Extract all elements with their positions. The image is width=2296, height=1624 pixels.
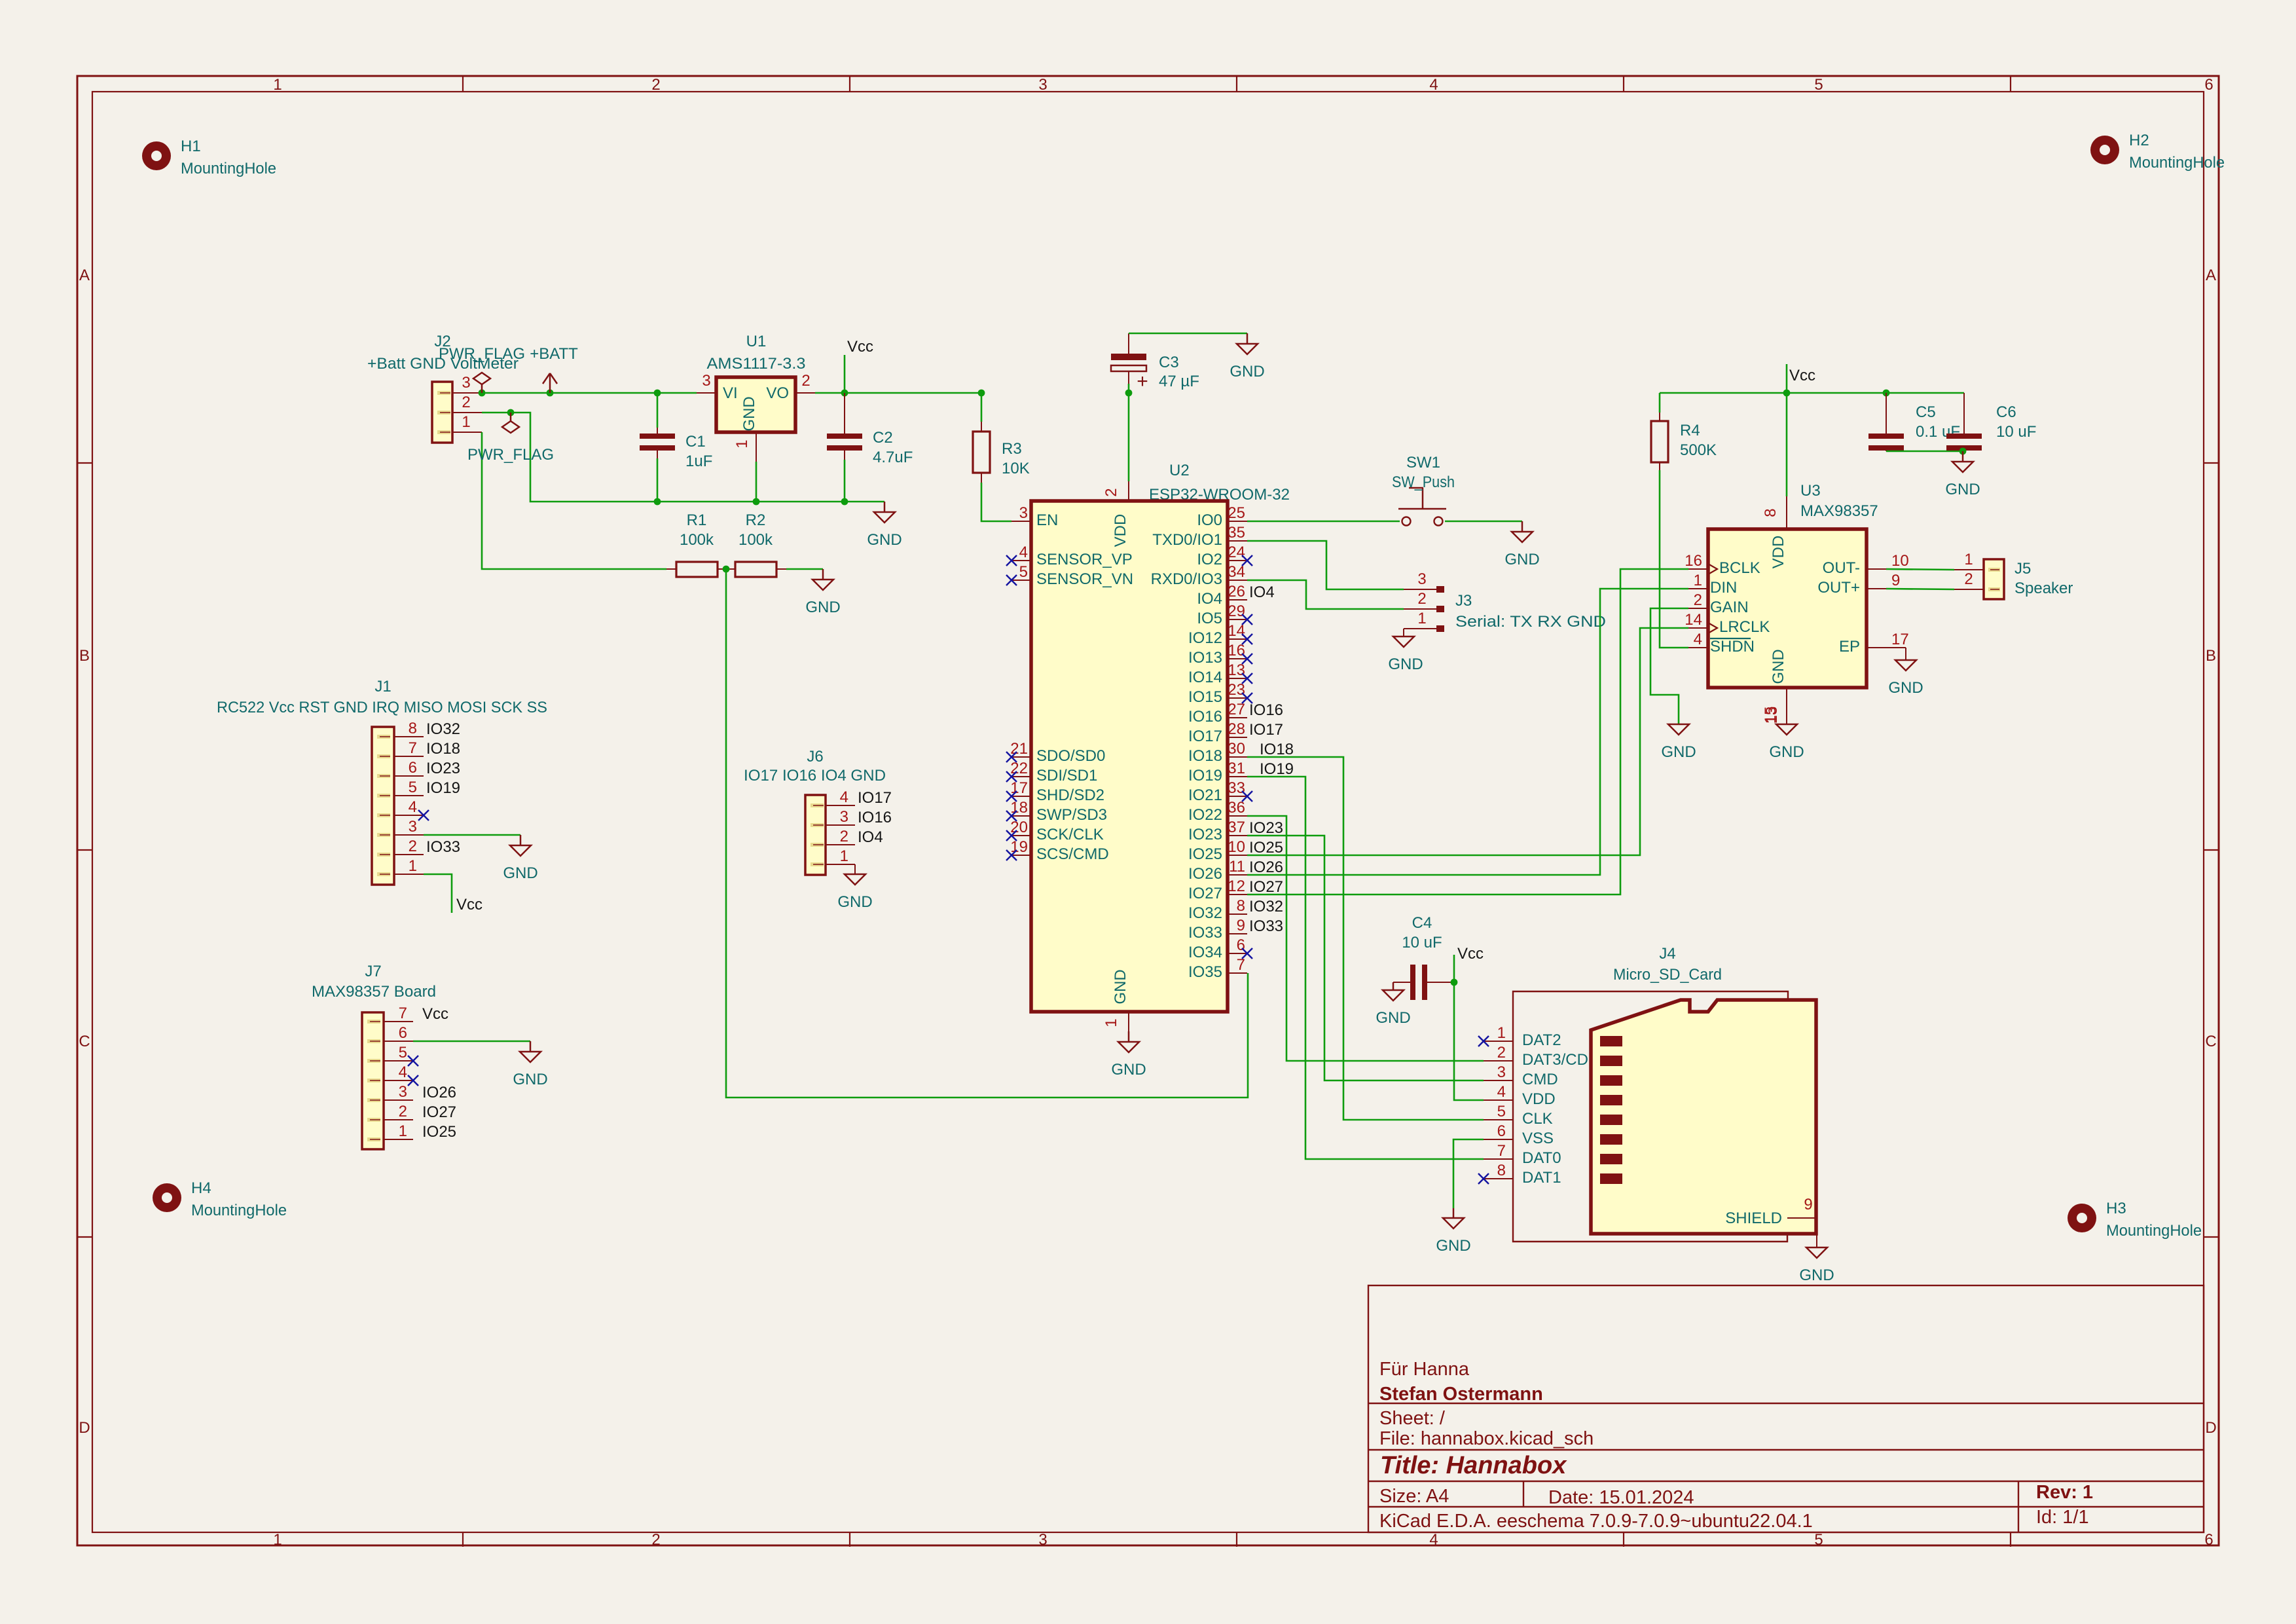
svg-text:3: 3	[1038, 1531, 1047, 1549]
svg-text:R3: R3	[1002, 440, 1022, 458]
svg-text:4: 4	[1694, 631, 1702, 648]
svg-text:500K: 500K	[1680, 441, 1717, 459]
svg-text:BCLK: BCLK	[1719, 559, 1760, 577]
svg-text:TXD0/IO1: TXD0/IO1	[1152, 531, 1222, 549]
svg-text:SHDN: SHDN	[1710, 638, 1755, 655]
svg-text:GND: GND	[1799, 1266, 1834, 1284]
svg-text:26: 26	[1228, 583, 1245, 600]
svg-text:LRCLK: LRCLK	[1719, 618, 1770, 636]
svg-text:5: 5	[399, 1044, 407, 1061]
svg-text:GND: GND	[513, 1071, 547, 1088]
svg-text:CLK: CLK	[1522, 1110, 1553, 1128]
svg-text:SHD/SD2: SHD/SD2	[1036, 786, 1104, 804]
svg-text:+BATT: +BATT	[530, 345, 578, 363]
svg-text:2: 2	[651, 76, 660, 94]
svg-text:1: 1	[273, 76, 282, 94]
svg-text:6: 6	[2204, 76, 2213, 94]
svg-text:4: 4	[1429, 1531, 1438, 1549]
svg-text:C: C	[2205, 1033, 2216, 1050]
svg-text:IO18: IO18	[426, 740, 460, 758]
svg-text:EN: EN	[1036, 511, 1058, 529]
svg-text:OUT-: OUT-	[1823, 559, 1860, 577]
svg-text:35: 35	[1228, 524, 1245, 542]
svg-text:A: A	[2206, 267, 2216, 284]
svg-text:B: B	[79, 647, 90, 665]
svg-text:31: 31	[1228, 760, 1245, 777]
svg-text:GND: GND	[867, 531, 902, 549]
svg-text:Date: 15.01.2024: Date: 15.01.2024	[1548, 1487, 1694, 1508]
svg-text:CMD: CMD	[1522, 1071, 1558, 1088]
svg-text:IO19: IO19	[1188, 767, 1222, 784]
svg-text:1: 1	[1497, 1024, 1506, 1042]
svg-text:11: 11	[1229, 858, 1245, 876]
svg-text:DAT3/CD: DAT3/CD	[1522, 1051, 1588, 1069]
svg-text:7: 7	[1497, 1142, 1506, 1160]
svg-text:DAT0: DAT0	[1522, 1149, 1561, 1167]
svg-text:PWR_FLAG: PWR_FLAG	[467, 446, 554, 464]
svg-text:VO: VO	[766, 384, 789, 402]
svg-text:IO0: IO0	[1197, 511, 1222, 529]
svg-text:VI: VI	[723, 384, 738, 402]
svg-text:SCS/CMD: SCS/CMD	[1036, 845, 1109, 863]
svg-text:Title: Hannabox: Title: Hannabox	[1380, 1452, 1567, 1479]
svg-text:GND: GND	[1770, 649, 1787, 684]
svg-text:Vcc: Vcc	[456, 896, 483, 913]
svg-text:J1: J1	[374, 678, 391, 695]
svg-text:9: 9	[1237, 917, 1245, 934]
svg-text:2: 2	[840, 828, 848, 845]
svg-text:24: 24	[1228, 544, 1245, 561]
svg-text:4: 4	[399, 1063, 407, 1081]
svg-text:1: 1	[1964, 551, 1973, 568]
svg-text:GND: GND	[837, 893, 872, 911]
svg-text:MountingHole: MountingHole	[2129, 154, 2225, 172]
svg-text:EP: EP	[1839, 638, 1860, 655]
svg-text:IO27: IO27	[422, 1103, 456, 1121]
svg-text:3: 3	[1019, 504, 1028, 522]
svg-text:IO26: IO26	[1249, 858, 1283, 876]
svg-text:GND: GND	[1436, 1237, 1470, 1255]
svg-text:IO12: IO12	[1188, 629, 1222, 647]
svg-text:U2: U2	[1169, 462, 1190, 479]
svg-text:GND: GND	[1661, 743, 1696, 761]
svg-text:AMS1117-3.3: AMS1117-3.3	[707, 355, 806, 373]
svg-text:1uF: 1uF	[685, 452, 712, 470]
svg-text:6: 6	[399, 1024, 407, 1042]
svg-text:MountingHole: MountingHole	[2106, 1222, 2202, 1240]
svg-text:9: 9	[1804, 1196, 1812, 1213]
svg-text:3: 3	[409, 818, 417, 836]
svg-text:SW_Push: SW_Push	[1392, 473, 1455, 491]
svg-text:GND: GND	[1376, 1009, 1410, 1027]
svg-text:GND: GND	[1945, 481, 1980, 498]
svg-text:IO17 IO16 IO4 GND: IO17 IO16 IO4 GND	[744, 767, 886, 784]
svg-text:IO13: IO13	[1188, 649, 1222, 667]
svg-text:5: 5	[1497, 1103, 1506, 1120]
svg-text:U1: U1	[746, 333, 767, 350]
svg-text:Id: 1/1: Id: 1/1	[2036, 1507, 2089, 1528]
svg-text:3: 3	[462, 374, 470, 392]
svg-text:9: 9	[1891, 572, 1900, 589]
svg-text:C: C	[79, 1033, 90, 1050]
svg-text:B: B	[2206, 647, 2216, 665]
svg-text:1: 1	[1694, 572, 1702, 589]
svg-text:IO21: IO21	[1188, 786, 1222, 804]
svg-text:J3: J3	[1455, 592, 1472, 610]
svg-text:IO32: IO32	[1249, 898, 1283, 915]
svg-text:MountingHole: MountingHole	[181, 160, 276, 177]
svg-text:IO15: IO15	[1188, 688, 1222, 706]
svg-text:GND: GND	[1769, 743, 1804, 761]
svg-text:MountingHole: MountingHole	[191, 1202, 287, 1219]
svg-text:IO33: IO33	[426, 838, 460, 856]
svg-text:GND: GND	[1388, 655, 1423, 673]
svg-text:IO23: IO23	[1249, 819, 1283, 837]
svg-text:H4: H4	[191, 1179, 211, 1197]
svg-text:37: 37	[1228, 819, 1245, 836]
svg-text:13: 13	[1763, 707, 1781, 724]
svg-text:4: 4	[1429, 76, 1438, 94]
svg-text:Vcc: Vcc	[1789, 367, 1815, 384]
svg-text:IO18: IO18	[1188, 747, 1222, 765]
svg-text:IO22: IO22	[1188, 806, 1222, 824]
svg-text:Stefan Ostermann: Stefan Ostermann	[1379, 1384, 1543, 1405]
svg-text:14: 14	[1685, 611, 1702, 629]
svg-text:1: 1	[1102, 1018, 1120, 1027]
svg-text:C5: C5	[1916, 403, 1936, 421]
svg-text:GND: GND	[1111, 1061, 1146, 1079]
svg-text:6: 6	[2204, 1531, 2213, 1549]
svg-text:DAT1: DAT1	[1522, 1169, 1561, 1187]
svg-text:MAX98357 Board: MAX98357 Board	[312, 983, 436, 1001]
svg-text:29: 29	[1228, 602, 1245, 620]
svg-text:SW1: SW1	[1406, 454, 1440, 471]
svg-text:GND: GND	[503, 864, 538, 882]
svg-text:GAIN: GAIN	[1710, 599, 1749, 616]
svg-text:J7: J7	[365, 963, 381, 980]
svg-text:MAX98357: MAX98357	[1800, 502, 1878, 520]
svg-text:Vcc: Vcc	[847, 338, 873, 356]
svg-text:IO32: IO32	[426, 720, 460, 738]
svg-text:OUT+: OUT+	[1817, 579, 1860, 597]
svg-text:2: 2	[462, 394, 470, 411]
svg-text:IO23: IO23	[426, 760, 460, 777]
svg-text:D: D	[2205, 1419, 2216, 1437]
svg-text:RC522 Vcc RST GND IRQ MISO MOS: RC522 Vcc RST GND IRQ MISO MOSI SCK SS	[217, 699, 547, 716]
svg-text:IO17: IO17	[1188, 728, 1222, 745]
svg-text:IO2: IO2	[1197, 551, 1222, 568]
svg-text:1: 1	[462, 413, 470, 431]
svg-text:A: A	[79, 267, 90, 284]
svg-text:J5: J5	[2014, 560, 2031, 578]
svg-text:U3: U3	[1800, 482, 1821, 500]
svg-text:SWP/SD3: SWP/SD3	[1036, 806, 1107, 824]
svg-text:IO23: IO23	[1188, 826, 1222, 843]
svg-text:IO19: IO19	[426, 779, 460, 797]
svg-text:47 µF: 47 µF	[1159, 373, 1199, 390]
svg-text:+: +	[1137, 371, 1148, 392]
svg-text:4: 4	[1019, 544, 1028, 561]
svg-text:1: 1	[273, 1531, 282, 1549]
svg-text:J4: J4	[1659, 945, 1675, 963]
svg-text:16: 16	[1685, 552, 1702, 570]
svg-text:5: 5	[409, 779, 417, 796]
svg-text:GND: GND	[1504, 551, 1539, 568]
svg-text:C1: C1	[685, 433, 706, 451]
svg-text:IO25: IO25	[1188, 845, 1222, 863]
svg-text:SCK/CLK: SCK/CLK	[1036, 826, 1104, 843]
svg-text:IO17: IO17	[1249, 721, 1283, 739]
svg-text:IO14: IO14	[1188, 669, 1222, 686]
svg-text:10: 10	[1228, 838, 1245, 856]
svg-text:IO4: IO4	[858, 828, 883, 846]
svg-text:8: 8	[409, 720, 417, 737]
svg-text:IO33: IO33	[1249, 917, 1283, 935]
svg-text:12: 12	[1228, 877, 1245, 895]
svg-text:7: 7	[1237, 956, 1245, 974]
svg-text:2: 2	[651, 1531, 660, 1549]
svg-text:4: 4	[409, 798, 417, 816]
svg-text:2: 2	[1102, 488, 1120, 496]
svg-text:IO16: IO16	[1249, 701, 1283, 719]
svg-text:GND: GND	[1888, 679, 1923, 697]
svg-text:SDI/SD1: SDI/SD1	[1036, 767, 1097, 784]
svg-text:10 uF: 10 uF	[1402, 934, 1442, 951]
svg-text:Sheet: /: Sheet: /	[1379, 1408, 1446, 1429]
svg-text:IO35: IO35	[1188, 963, 1222, 981]
svg-text:IO25: IO25	[1249, 839, 1283, 857]
svg-text:25: 25	[1228, 504, 1245, 522]
svg-text:5: 5	[1814, 1531, 1823, 1549]
svg-text:IO34: IO34	[1188, 944, 1222, 961]
svg-text:10: 10	[1891, 552, 1909, 570]
svg-text:File: hannabox.kicad_sch: File: hannabox.kicad_sch	[1379, 1428, 1594, 1449]
svg-text:IO26: IO26	[422, 1084, 456, 1101]
svg-text:Für Hanna: Für Hanna	[1379, 1359, 1470, 1380]
svg-text:1: 1	[733, 439, 751, 448]
svg-text:IO17: IO17	[858, 789, 892, 807]
svg-text:8: 8	[1497, 1162, 1506, 1179]
svg-text:R1: R1	[687, 511, 707, 529]
svg-text:2: 2	[1694, 591, 1702, 609]
svg-text:IO32: IO32	[1188, 904, 1222, 922]
svg-text:5: 5	[1814, 76, 1823, 94]
svg-text:GND: GND	[1230, 363, 1264, 380]
svg-text:4: 4	[840, 788, 848, 806]
svg-text:IO16: IO16	[858, 809, 892, 826]
svg-text:6: 6	[409, 759, 417, 777]
svg-text:VDD: VDD	[1770, 536, 1787, 569]
svg-text:DIN: DIN	[1710, 579, 1737, 597]
svg-text:Size: A4: Size: A4	[1379, 1486, 1449, 1507]
svg-text:4: 4	[1497, 1083, 1506, 1101]
svg-text:IO18: IO18	[1260, 741, 1294, 758]
svg-text:3: 3	[399, 1083, 407, 1101]
svg-text:H3: H3	[2106, 1200, 2126, 1217]
svg-text:1: 1	[409, 857, 417, 875]
svg-text:3: 3	[1417, 570, 1426, 588]
svg-text:IO27: IO27	[1188, 885, 1222, 902]
svg-text:2: 2	[409, 838, 417, 855]
svg-text:Speaker: Speaker	[2014, 580, 2073, 597]
svg-text:10 uF: 10 uF	[1996, 423, 2036, 441]
svg-text:4.7uF: 4.7uF	[873, 449, 913, 466]
svg-text:Rev: 1: Rev: 1	[2036, 1482, 2093, 1503]
svg-text:RXD0/IO3: RXD0/IO3	[1151, 570, 1222, 588]
svg-text:7: 7	[409, 739, 417, 757]
svg-text:IO25: IO25	[422, 1123, 456, 1141]
svg-text:Serial: TX RX GND: Serial: TX RX GND	[1455, 613, 1606, 631]
svg-text:7: 7	[399, 1005, 407, 1022]
svg-text:Vcc: Vcc	[422, 1005, 448, 1023]
svg-text:2: 2	[399, 1103, 407, 1120]
svg-text:3: 3	[1497, 1063, 1506, 1081]
svg-text:6: 6	[1497, 1122, 1506, 1140]
svg-text:3: 3	[1038, 76, 1047, 94]
svg-text:D: D	[79, 1419, 90, 1437]
svg-text:DAT2: DAT2	[1522, 1031, 1561, 1049]
svg-text:R4: R4	[1680, 422, 1700, 439]
svg-text:2: 2	[1964, 570, 1973, 588]
svg-text:SHIELD: SHIELD	[1725, 1209, 1782, 1227]
svg-text:1: 1	[1417, 610, 1426, 627]
svg-text:28: 28	[1228, 720, 1245, 738]
svg-text:KiCad E.D.A. eeschema 7.0.9-7: KiCad E.D.A. eeschema 7.0.9-7.0.9~ubuntu…	[1379, 1511, 1813, 1532]
svg-text:IO27: IO27	[1249, 878, 1283, 896]
svg-text:IO19: IO19	[1260, 760, 1294, 778]
svg-text:R2: R2	[746, 511, 766, 529]
svg-text:17: 17	[1891, 631, 1909, 648]
svg-text:C2: C2	[873, 429, 893, 447]
svg-text:SENSOR_VN: SENSOR_VN	[1036, 570, 1133, 588]
svg-text:GND: GND	[1112, 969, 1129, 1004]
svg-text:5: 5	[1019, 563, 1028, 581]
svg-text:IO4: IO4	[1249, 583, 1275, 601]
svg-text:J6: J6	[807, 748, 823, 766]
svg-text:GND: GND	[740, 396, 758, 431]
svg-text:6: 6	[1237, 936, 1245, 954]
svg-text:Vcc: Vcc	[1457, 945, 1484, 963]
svg-text:1: 1	[399, 1122, 407, 1140]
svg-text:2: 2	[1497, 1044, 1506, 1061]
svg-text:10K: 10K	[1002, 460, 1030, 477]
svg-text:8: 8	[1237, 897, 1245, 915]
svg-text:2: 2	[1417, 590, 1426, 608]
svg-text:IO5: IO5	[1197, 610, 1222, 627]
svg-text:IO4: IO4	[1197, 590, 1222, 608]
svg-text:H2: H2	[2129, 132, 2149, 149]
svg-text:VDD: VDD	[1112, 514, 1129, 547]
svg-text:VDD: VDD	[1522, 1090, 1556, 1108]
svg-text:100k: 100k	[738, 531, 773, 549]
svg-text:SDO/SD0: SDO/SD0	[1036, 747, 1105, 765]
svg-text:C6: C6	[1996, 403, 2016, 421]
svg-text:H1: H1	[181, 138, 201, 155]
svg-text:SENSOR_VP: SENSOR_VP	[1036, 551, 1133, 568]
svg-text:PWR_FLAG: PWR_FLAG	[439, 345, 525, 363]
svg-text:GND: GND	[805, 599, 840, 616]
svg-text:1: 1	[840, 847, 848, 865]
svg-text:C3: C3	[1159, 354, 1179, 371]
svg-text:33: 33	[1228, 779, 1245, 797]
svg-text:2: 2	[801, 372, 810, 390]
svg-text:30: 30	[1228, 740, 1245, 758]
svg-text:8: 8	[1762, 508, 1779, 517]
svg-text:3: 3	[702, 372, 710, 390]
svg-text:VSS: VSS	[1522, 1130, 1554, 1147]
svg-text:IO16: IO16	[1188, 708, 1222, 726]
svg-text:Micro_SD_Card: Micro_SD_Card	[1613, 966, 1722, 984]
svg-text:3: 3	[840, 808, 848, 826]
svg-text:100k: 100k	[680, 531, 714, 549]
svg-text:C4: C4	[1412, 914, 1432, 932]
svg-text:IO33: IO33	[1188, 924, 1222, 942]
svg-text:IO26: IO26	[1188, 865, 1222, 883]
